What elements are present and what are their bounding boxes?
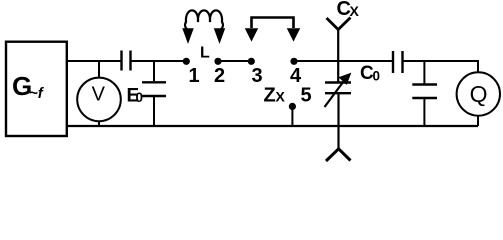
svg-text:0: 0 [373,69,381,84]
node 4 [290,58,302,87]
svg-text:3: 3 [251,65,262,87]
svg-text:V: V [92,84,106,106]
capacitor E0 shunt [142,61,166,126]
svg-text:2: 2 [214,65,225,87]
svg-text:Z: Z [264,85,276,107]
label L [200,45,210,62]
capacitor series left [122,51,131,71]
wire top rail cap to node1 [132,60,186,62]
variable capacitor CX/C0 branch: top fork [327,18,351,82]
node 3 [248,58,263,87]
node 1 [183,58,200,87]
wire bottom rail [67,125,478,127]
svg-text:X: X [276,89,286,105]
variable capacitor C0 plates and arrow [325,74,352,108]
label CX [337,0,360,20]
generator box G~f [6,42,67,136]
label E0 [127,86,144,107]
Q meter [457,72,500,126]
svg-text:X: X [350,3,360,19]
label C0 [360,63,380,84]
svg-text:1: 1 [188,65,199,87]
svg-text:L: L [200,45,210,62]
wire node4 to cap right [294,60,392,62]
node 2 [214,58,225,87]
capacitor shunt right [412,61,437,126]
wire node2 to node3 [218,60,251,62]
inductor L coil with plug-in arrows [183,10,225,42]
svg-text:~f: ~f [29,85,45,102]
wire cap right to Q meter corner [404,61,479,73]
label ZX [264,85,286,107]
bracket connector for ZX across 3-4 [246,18,300,41]
svg-text:Q: Q [470,81,488,107]
wire top rail left segment [67,60,121,62]
capacitor series right [393,51,403,73]
node 5 with wire to bottom rail [289,85,312,127]
variable capacitor lower lead and bottom fork [326,94,351,161]
svg-text:5: 5 [300,85,311,107]
voltmeter V [77,61,121,126]
svg-text:0: 0 [136,90,144,105]
